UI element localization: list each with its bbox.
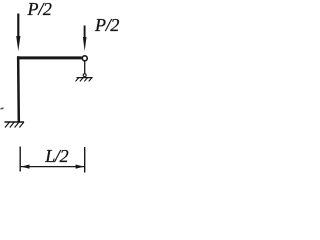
dimension line (21, 166, 85, 168)
dimension extension tick right (84, 147, 86, 173)
ground hatching (left support) (5, 122, 24, 128)
load arrow P/2 left (shaft) (17, 14, 19, 40)
beam (horizontal member) (17, 56, 82, 59)
load arrow P/2 right (head) (83, 37, 87, 51)
hinge circle at right end of beam (82, 56, 87, 61)
support link (right) (84, 62, 86, 74)
lower hinge circle (right support) (83, 74, 86, 77)
svg-text:P/2: P/2 (27, 0, 52, 19)
dimension arrowhead right (76, 165, 85, 169)
ground line (right support) (77, 77, 93, 79)
load arrow P/2 left (head) (16, 36, 20, 51)
load arrow P/2 right (shaft) (84, 26, 86, 41)
dimension extension tick left (19, 147, 21, 172)
ground hatching (right support) (76, 78, 93, 82)
svg-text:P/2: P/2 (94, 15, 119, 35)
ground line (left support) (5, 121, 25, 123)
stray scan mark left edge (1, 107, 4, 110)
svg-text:L/2: L/2 (44, 146, 68, 166)
column (vertical member) (17, 56, 20, 121)
dimension arrowhead left (21, 165, 30, 169)
